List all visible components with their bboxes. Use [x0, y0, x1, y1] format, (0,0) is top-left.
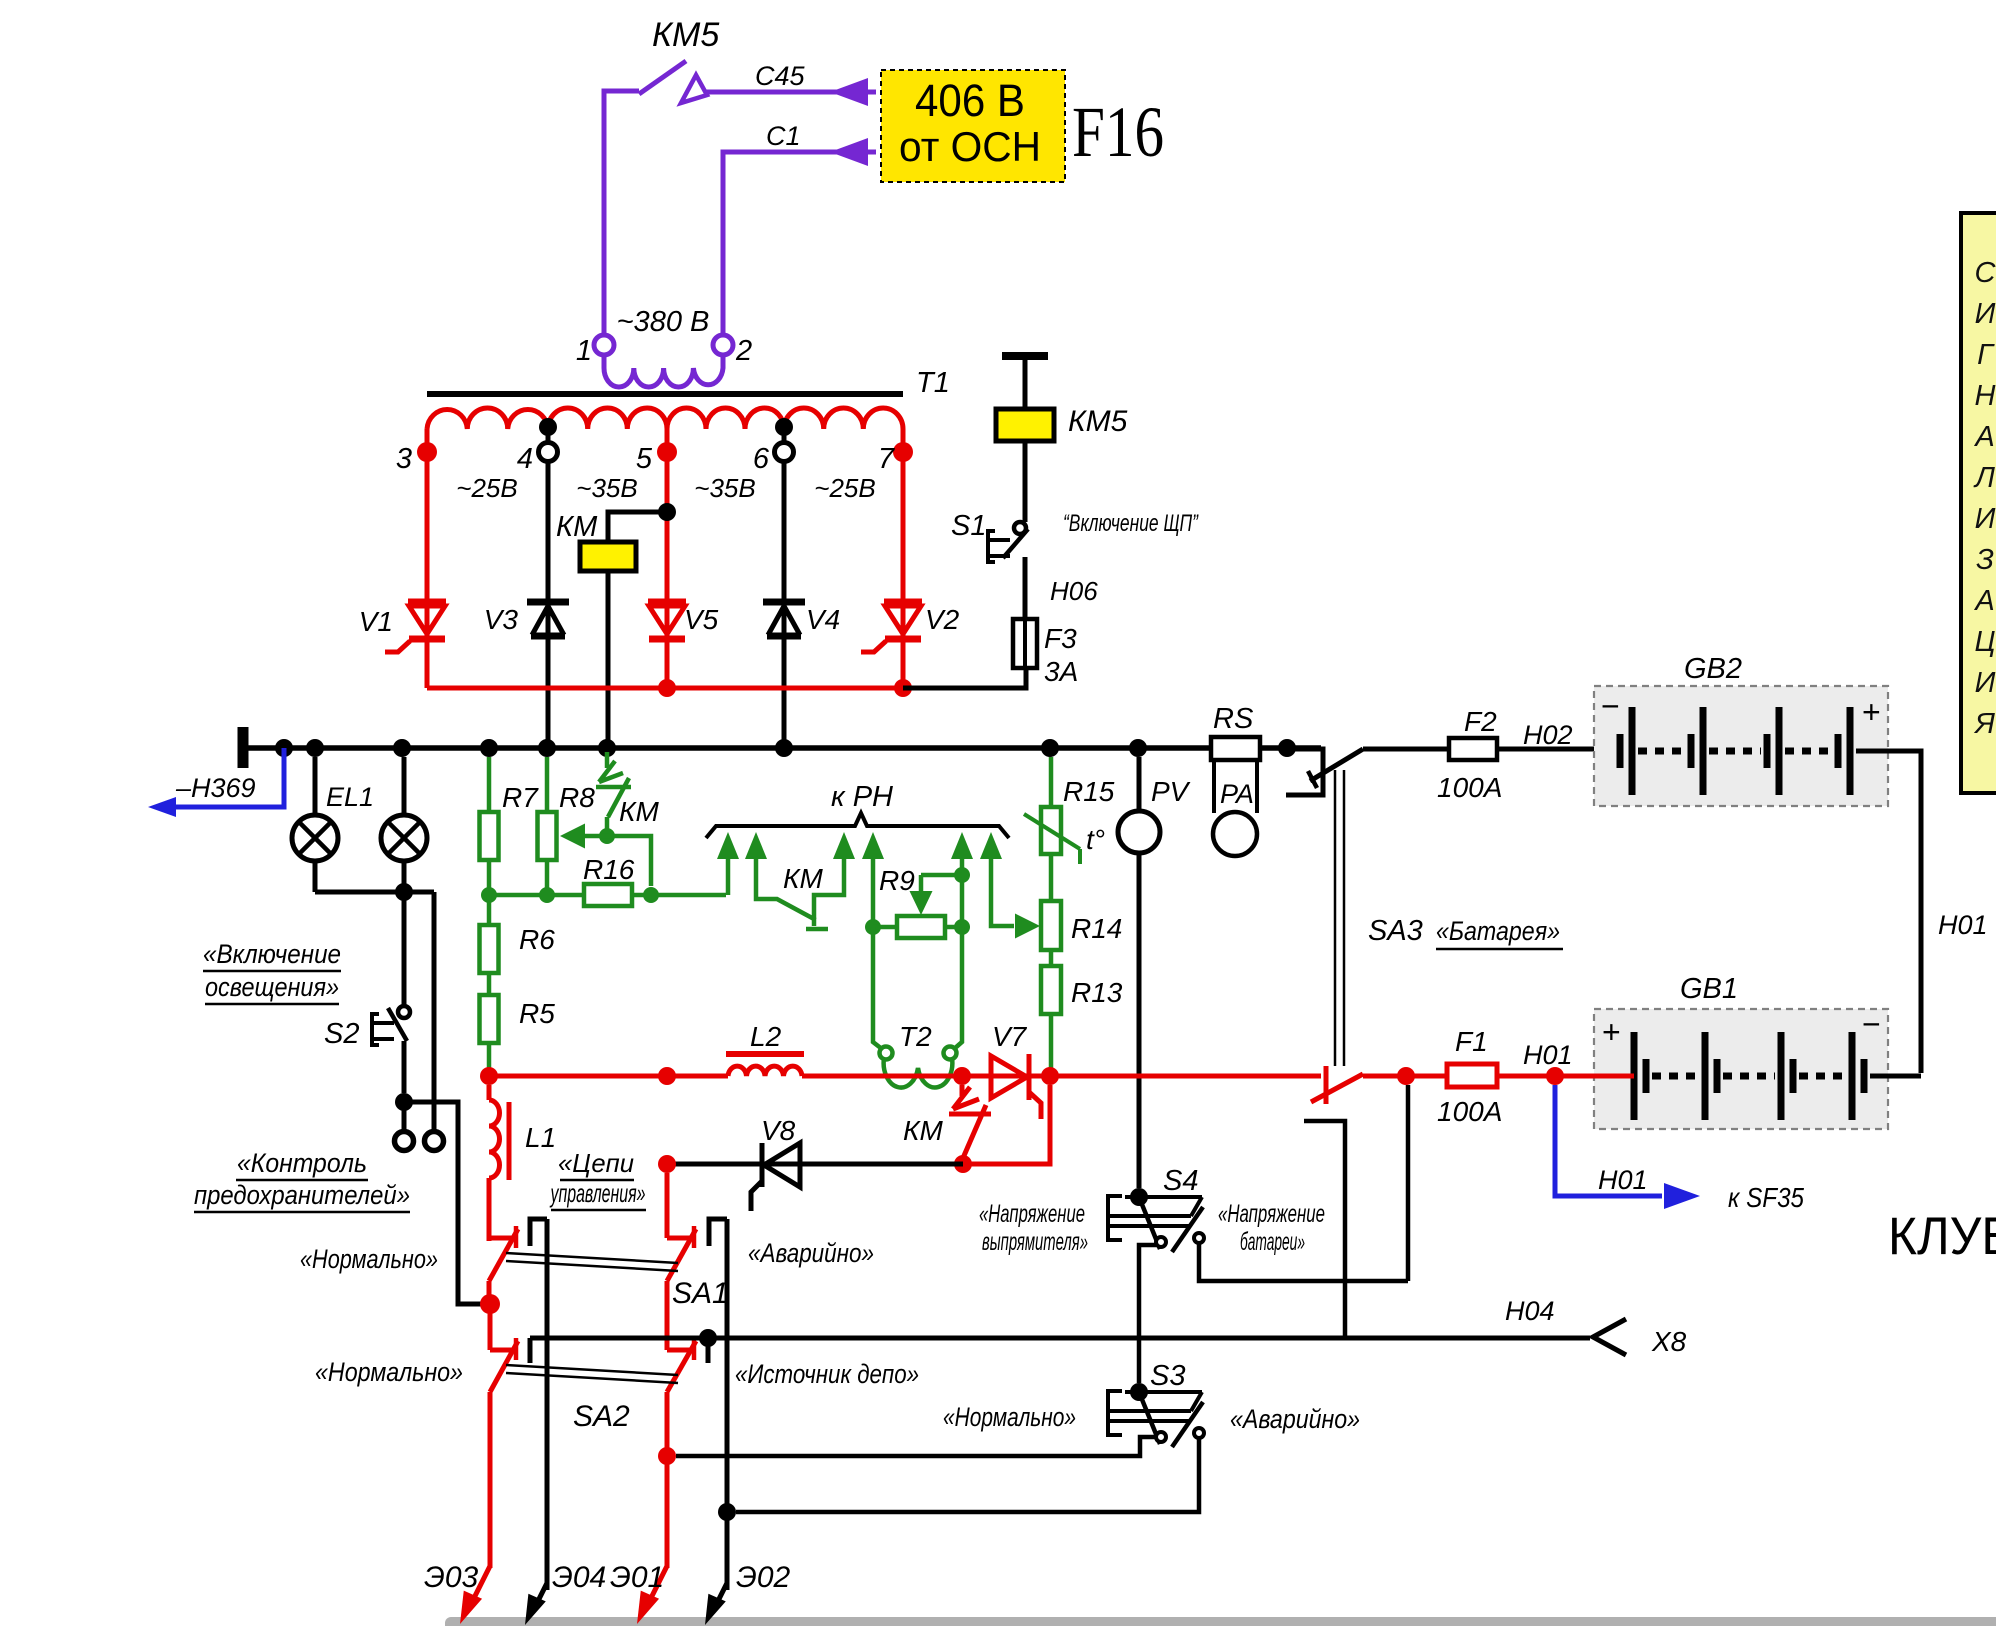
svg-text:S2: S2: [324, 1018, 359, 1050]
svg-text:“Включение ЩП”: “Включение ЩП”: [1063, 510, 1199, 537]
svg-text:«Нормально»: «Нормально»: [943, 1402, 1076, 1432]
svg-text:R9: R9: [879, 865, 915, 896]
svg-text:КМ: КМ: [619, 796, 660, 827]
svg-text:~380 В: ~380 В: [617, 306, 710, 338]
svg-text:«Аварийно»: «Аварийно»: [748, 1238, 874, 1268]
svg-text:управления»: управления»: [549, 1178, 645, 1208]
svg-text:S1: S1: [951, 510, 986, 542]
svg-text:100А: 100А: [1437, 1096, 1502, 1127]
svg-text:«Нормально»: «Нормально»: [315, 1357, 463, 1387]
svg-text:V4: V4: [806, 604, 840, 635]
svg-text:Н01: Н01: [1598, 1165, 1648, 1195]
svg-text:Э04: Э04: [552, 1561, 606, 1594]
svg-text:Н02: Н02: [1523, 720, 1573, 750]
svg-text:И: И: [1975, 503, 1996, 535]
svg-text:V1: V1: [359, 606, 393, 637]
svg-text:«Контроль: «Контроль: [237, 1148, 367, 1178]
svg-text:V8: V8: [761, 1115, 796, 1146]
svg-text:КЛУБ: КЛУБ: [1888, 1207, 1996, 1266]
svg-text:V5: V5: [684, 604, 719, 635]
svg-text:F1: F1: [1455, 1026, 1488, 1057]
svg-text:Н04: Н04: [1505, 1296, 1555, 1326]
svg-text:R5: R5: [519, 998, 555, 1029]
svg-text:–Н369: –Н369: [175, 773, 256, 803]
svg-text:PV: PV: [1151, 776, 1191, 807]
svg-text:−: −: [1862, 1006, 1881, 1042]
svg-text:5: 5: [636, 443, 653, 475]
svg-text:+: +: [1862, 694, 1881, 730]
svg-text:Э02: Э02: [736, 1561, 791, 1594]
svg-text:R13: R13: [1071, 977, 1123, 1008]
svg-text:И: И: [1975, 667, 1996, 699]
svg-text:V2: V2: [925, 604, 960, 635]
svg-text:«Батарея»: «Батарея»: [1436, 916, 1560, 946]
svg-text:R6: R6: [519, 924, 555, 955]
svg-text:F2: F2: [1464, 706, 1497, 737]
svg-text:6: 6: [753, 443, 770, 475]
svg-text:~35В: ~35В: [576, 473, 637, 503]
svg-text:−: −: [1601, 688, 1620, 724]
svg-text:С: С: [1975, 257, 1996, 289]
svg-text:2: 2: [735, 335, 752, 367]
svg-text:предохранителей»: предохранителей»: [194, 1180, 410, 1210]
svg-text:~25В: ~25В: [814, 473, 875, 503]
svg-text:«Напряжение: «Напряжение: [979, 1200, 1085, 1228]
svg-text:V3: V3: [484, 604, 519, 635]
svg-text:«Источник депо»: «Источник депо»: [735, 1359, 919, 1389]
svg-text:~35В: ~35В: [694, 473, 755, 503]
svg-text:R14: R14: [1071, 913, 1122, 944]
svg-text:«Нормально»: «Нормально»: [300, 1244, 438, 1274]
svg-text:Э01: Э01: [610, 1561, 664, 1594]
svg-text:Т2: Т2: [899, 1021, 932, 1052]
svg-text:GB2: GB2: [1684, 653, 1742, 685]
svg-text:«Цепи: «Цепи: [558, 1148, 634, 1178]
svg-text:Н: Н: [1975, 380, 1996, 412]
svg-text:S3: S3: [1150, 1360, 1185, 1392]
svg-text:100А: 100А: [1437, 772, 1502, 803]
svg-text:R7: R7: [502, 782, 539, 813]
svg-text:3А: 3А: [1044, 656, 1078, 687]
svg-text:S4: S4: [1163, 1165, 1198, 1197]
svg-text:SA3: SA3: [1368, 915, 1423, 947]
svg-text:GB1: GB1: [1680, 973, 1738, 1005]
svg-text:t°: t°: [1086, 824, 1105, 855]
svg-text:Н01: Н01: [1938, 910, 1988, 940]
svg-text:Т1: Т1: [916, 367, 950, 399]
svg-text:3: 3: [396, 443, 412, 475]
svg-text:КМ: КМ: [783, 863, 824, 894]
svg-text:батареи»: батареи»: [1240, 1228, 1305, 1256]
svg-text:R15: R15: [1063, 776, 1115, 807]
svg-text:к SF35: к SF35: [1728, 1182, 1804, 1213]
svg-text:«Включение: «Включение: [203, 939, 341, 969]
svg-text:С45: С45: [755, 61, 806, 91]
svg-text:А: А: [1973, 421, 1994, 453]
svg-text:+: +: [1602, 1014, 1621, 1050]
svg-text:И: И: [1975, 298, 1996, 330]
svg-text:~25В: ~25В: [456, 473, 517, 503]
svg-text:V7: V7: [992, 1021, 1028, 1052]
svg-text:Л: Л: [1973, 462, 1995, 494]
svg-text:КМ5: КМ5: [652, 16, 719, 54]
svg-text:Ц: Ц: [1974, 626, 1995, 658]
svg-text:SA2: SA2: [573, 1400, 630, 1433]
svg-text:Н01: Н01: [1523, 1040, 1573, 1070]
svg-text:выпрямителя»: выпрямителя»: [982, 1228, 1088, 1256]
svg-text:З: З: [1976, 544, 1994, 576]
svg-text:А: А: [1973, 585, 1994, 617]
svg-text:Я: Я: [1973, 708, 1995, 740]
svg-text:R8: R8: [559, 782, 595, 813]
svg-text:РА: РА: [1220, 779, 1254, 809]
svg-text:к РН: к РН: [831, 781, 893, 813]
svg-text:КМ: КМ: [556, 511, 598, 543]
svg-text:7: 7: [878, 443, 896, 475]
svg-text:L2: L2: [750, 1021, 782, 1052]
svg-text:RS: RS: [1213, 703, 1254, 735]
svg-text:освещения»: освещения»: [205, 972, 339, 1002]
svg-text:4: 4: [517, 443, 533, 475]
svg-text:КМ: КМ: [903, 1115, 944, 1146]
svg-text:С1: С1: [766, 121, 801, 151]
svg-text:EL1: EL1: [326, 782, 374, 812]
svg-text:Х8: Х8: [1651, 1326, 1687, 1357]
svg-text:Н06: Н06: [1050, 576, 1098, 606]
svg-text:Э03: Э03: [424, 1561, 479, 1594]
svg-text:F16: F16: [1072, 92, 1164, 172]
svg-text:L1: L1: [525, 1122, 556, 1153]
svg-text:«Аварийно»: «Аварийно»: [1230, 1404, 1360, 1434]
svg-text:F3: F3: [1044, 623, 1077, 654]
svg-text:«Напряжение: «Напряжение: [1218, 1200, 1325, 1228]
svg-text:1: 1: [576, 335, 592, 367]
svg-text:406 В: 406 В: [915, 75, 1025, 126]
svg-text:SA1: SA1: [672, 1277, 729, 1310]
svg-text:Г: Г: [1977, 339, 1995, 371]
svg-text:от ОСН: от ОСН: [899, 123, 1041, 170]
svg-text:R16: R16: [583, 854, 635, 885]
svg-text:КМ5: КМ5: [1068, 405, 1128, 438]
